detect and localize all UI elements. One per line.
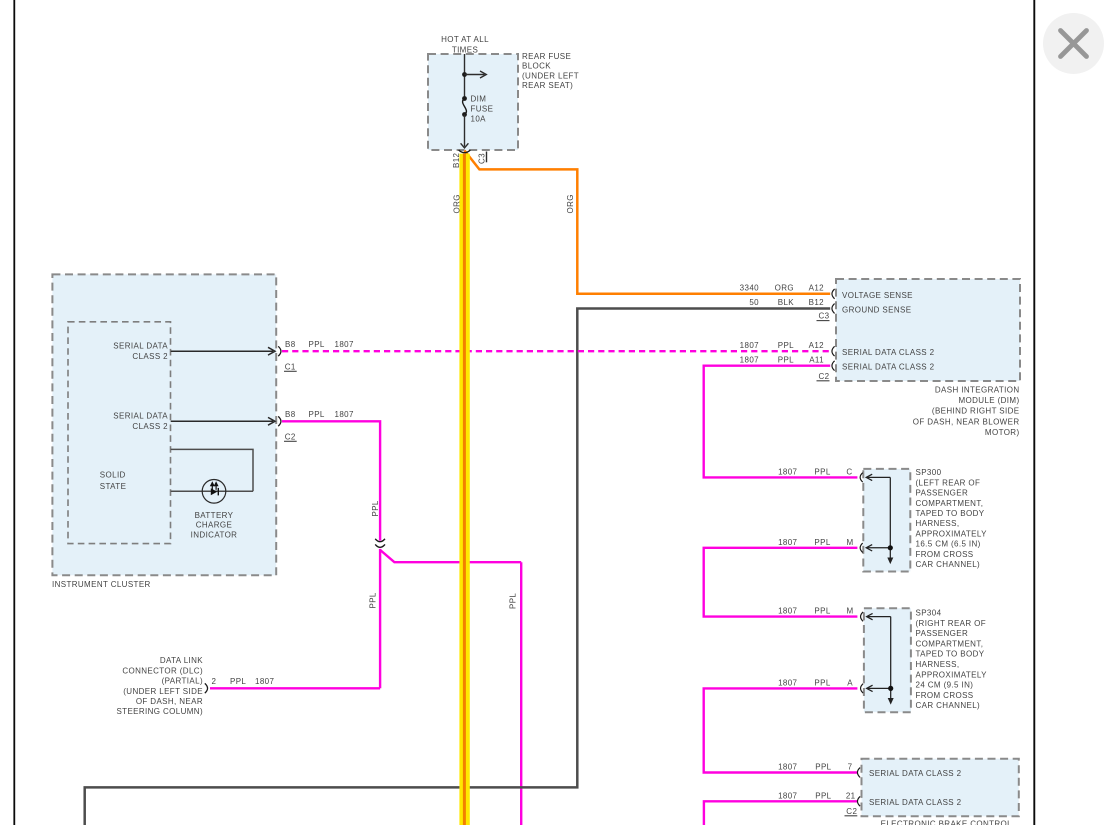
svg-text:PPL: PPL <box>815 763 831 772</box>
DIM module box <box>836 279 1020 381</box>
svg-text:3340: 3340 <box>740 283 759 292</box>
svg-text:B12: B12 <box>809 298 825 307</box>
SP300 splice box <box>863 469 910 572</box>
svg-text:SERIAL DATA: SERIAL DATA <box>113 411 168 420</box>
battery indicator loop wire <box>171 449 253 491</box>
svg-text:(UNDER LEFT SIDE: (UNDER LEFT SIDE <box>123 687 203 696</box>
wire PPL 1807 branch via inline connector to DIM side <box>380 550 521 825</box>
svg-text:1807: 1807 <box>778 763 797 772</box>
svg-text:(UNDER LEFT: (UNDER LEFT <box>522 71 579 80</box>
svg-text:C3: C3 <box>819 312 830 321</box>
svg-text:(LEFT REAR OF: (LEFT REAR OF <box>916 478 981 487</box>
svg-text:CONNECTOR (DLC): CONNECTOR (DLC) <box>122 666 203 675</box>
svg-text:SERIAL DATA CLASS 2: SERIAL DATA CLASS 2 <box>869 769 962 778</box>
SP300 junction dot <box>888 545 893 550</box>
svg-text:B8: B8 <box>285 410 296 419</box>
wire PPL 1807 cluster C1 to DIM A12 (dashed) <box>282 350 830 352</box>
svg-text:BLOCK: BLOCK <box>522 62 551 71</box>
svg-text:1807: 1807 <box>255 677 274 686</box>
svg-text:PPL: PPL <box>778 356 794 365</box>
svg-text:PPL: PPL <box>814 607 830 616</box>
svg-text:M: M <box>846 538 853 547</box>
svg-text:ORG: ORG <box>452 194 461 213</box>
svg-text:1807: 1807 <box>335 410 354 419</box>
svg-text:FROM CROSS: FROM CROSS <box>916 691 974 700</box>
svg-text:REAR SEAT): REAR SEAT) <box>522 81 573 90</box>
svg-text:VOLTAGE SENSE: VOLTAGE SENSE <box>842 291 913 300</box>
svg-text:PASSENGER: PASSENGER <box>916 489 969 498</box>
svg-text:SERIAL DATA: SERIAL DATA <box>113 341 168 350</box>
svg-text:REAR FUSE: REAR FUSE <box>522 52 571 61</box>
svg-text:DIM: DIM <box>471 94 487 103</box>
svg-text:A11: A11 <box>809 356 824 365</box>
svg-text:SOLID: SOLID <box>100 470 126 479</box>
svg-text:24 CM (9.5 IN): 24 CM (9.5 IN) <box>916 681 974 690</box>
svg-text:MODULE (DIM): MODULE (DIM) <box>958 396 1019 405</box>
svg-text:PPL: PPL <box>815 791 831 800</box>
svg-text:STATE: STATE <box>100 482 127 491</box>
fuse feed wire inside block <box>464 54 466 99</box>
svg-text:A12: A12 <box>809 341 825 350</box>
svg-text:INSTRUMENT CLUSTER: INSTRUMENT CLUSTER <box>52 580 151 589</box>
svg-text:INDICATOR: INDICATOR <box>191 530 238 539</box>
svg-text:SERIAL DATA CLASS 2: SERIAL DATA CLASS 2 <box>842 348 935 357</box>
svg-text:FROM CROSS: FROM CROSS <box>916 550 974 559</box>
svg-text:CLASS 2: CLASS 2 <box>132 422 168 431</box>
highlighted traced wire (yellow) <box>459 154 469 825</box>
svg-text:CLASS 2: CLASS 2 <box>132 352 168 361</box>
svg-text:21: 21 <box>846 791 856 800</box>
close button <box>1043 13 1104 74</box>
svg-text:7: 7 <box>848 763 853 772</box>
svg-text:PPL: PPL <box>509 593 518 609</box>
page frame left border <box>13 0 15 825</box>
svg-text:STEERING COLUMN): STEERING COLUMN) <box>116 707 203 716</box>
svg-text:1807: 1807 <box>740 356 759 365</box>
rear fuse block box <box>428 54 518 150</box>
svg-text:TIMES: TIMES <box>452 45 478 54</box>
svg-text:PASSENGER: PASSENGER <box>916 629 969 638</box>
page frame right border <box>1033 0 1035 825</box>
SP300 connector arcs <box>860 473 863 553</box>
fuse output wire with down arrow <box>461 115 469 148</box>
svg-text:ORG: ORG <box>566 194 575 213</box>
svg-text:PPL: PPL <box>371 500 380 516</box>
svg-text:B8: B8 <box>285 340 296 349</box>
svg-text:PPL: PPL <box>230 677 246 686</box>
wire PPL 1807 EBCM pin 21 heading off-page <box>704 801 858 825</box>
svg-text:GROUND SENSE: GROUND SENSE <box>842 305 911 314</box>
EBCM module box <box>862 759 1019 817</box>
svg-text:SERIAL DATA CLASS 2: SERIAL DATA CLASS 2 <box>869 798 962 807</box>
label REAR FUSE BLOCK (UNDER LEFT REAR SEAT) <box>522 52 579 90</box>
wire ORG 3340 fuse to DIM A12 <box>465 151 831 294</box>
svg-text:CHARGE: CHARGE <box>196 521 233 530</box>
LED diode triangle and cathode bar <box>211 488 217 495</box>
wire PPL 1807 cluster C2 to junction (solid magenta) <box>282 421 380 688</box>
traced wire orange core <box>463 154 466 825</box>
svg-text:(PARTIAL): (PARTIAL) <box>162 677 203 686</box>
svg-text:COMPARTMENT,: COMPARTMENT, <box>916 639 984 648</box>
svg-text:1807: 1807 <box>335 340 354 349</box>
inline connector arcs on PPL wire <box>375 150 470 547</box>
svg-text:MOTOR): MOTOR) <box>985 428 1020 437</box>
svg-text:C3: C3 <box>478 153 487 164</box>
connector C2 arc at cluster <box>278 416 281 426</box>
label HOT AT ALL TIMES <box>441 35 489 55</box>
svg-text:1807: 1807 <box>740 341 759 350</box>
text cursor artifact <box>486 152 487 163</box>
label SP304 location <box>916 609 988 711</box>
svg-text:SP304: SP304 <box>916 609 942 618</box>
svg-text:50: 50 <box>749 298 759 307</box>
connector arc at DLC <box>205 683 208 693</box>
svg-text:APPROXIMATELY: APPROXIMATELY <box>916 529 988 538</box>
svg-text:C2: C2 <box>846 807 857 816</box>
cluster C1 output arrow <box>171 347 275 355</box>
svg-text:FUSE: FUSE <box>471 104 494 113</box>
LED emission arrows <box>211 483 218 490</box>
svg-text:CAR CHANNEL): CAR CHANNEL) <box>916 701 981 710</box>
EBCM connector arcs <box>857 768 860 807</box>
cluster inner solid-state box <box>68 322 171 544</box>
svg-text:PPL: PPL <box>309 410 325 419</box>
connector C3 arc under fuse block <box>459 150 471 153</box>
svg-text:PPL: PPL <box>778 341 794 350</box>
SP304 connector arcs <box>861 612 864 693</box>
svg-text:DASH INTEGRATION: DASH INTEGRATION <box>935 385 1020 394</box>
svg-text:ELECTRONIC BRAKE CONTROL: ELECTRONIC BRAKE CONTROL <box>881 819 1013 825</box>
svg-text:C: C <box>846 468 852 477</box>
wire BLK 50 DIM B12 ground run <box>85 309 831 825</box>
label DIM FUSE 10A <box>471 94 494 123</box>
svg-text:ORG: ORG <box>775 283 794 292</box>
SP300 internal splice arrows <box>866 474 890 558</box>
label DATA LINK CONNECTOR (DLC) location <box>116 656 203 716</box>
svg-text:1807: 1807 <box>778 538 797 547</box>
junction node dot <box>462 72 467 77</box>
wire PPL 1807 DLC to junction <box>210 687 380 689</box>
svg-text:HARNESS,: HARNESS, <box>916 519 960 528</box>
SP304 internal splice arrows <box>867 613 891 699</box>
svg-text:COMPARTMENT,: COMPARTMENT, <box>916 499 984 508</box>
svg-text:OF DASH, NEAR BLOWER: OF DASH, NEAR BLOWER <box>913 417 1020 426</box>
svg-text:C1: C1 <box>285 362 296 371</box>
branch arrow to right <box>465 71 487 78</box>
svg-text:SP300: SP300 <box>916 468 942 477</box>
svg-text:DATA LINK: DATA LINK <box>160 656 203 665</box>
svg-text:PPL: PPL <box>369 592 378 608</box>
cluster C2 output arrow <box>171 417 275 425</box>
svg-text:(BEHIND RIGHT SIDE: (BEHIND RIGHT SIDE <box>932 407 1020 416</box>
svg-text:TAPED TO BODY: TAPED TO BODY <box>916 509 985 518</box>
SP304 junction dot <box>888 686 893 691</box>
fuse F_DIM 10A symbol <box>463 99 467 115</box>
svg-text:1807: 1807 <box>778 679 797 688</box>
instrument cluster outer box <box>52 274 276 575</box>
wire PPL 1807 SP304 pin A to EBCM pin 7 <box>704 688 858 772</box>
svg-text:TAPED TO BODY: TAPED TO BODY <box>916 650 985 659</box>
svg-text:1807: 1807 <box>778 468 797 477</box>
wire PPL 1807 DIM A11 to SP300 pin C <box>704 366 858 478</box>
svg-text:C2: C2 <box>285 432 296 441</box>
svg-text:HARNESS,: HARNESS, <box>916 660 960 669</box>
battery charge indicator LED circle <box>202 480 226 504</box>
svg-text:C2: C2 <box>819 372 830 381</box>
svg-text:HOT AT ALL: HOT AT ALL <box>441 35 489 44</box>
wire PPL 1807 SP300 pin M to SP304 pin M <box>704 548 858 617</box>
svg-text:(RIGHT REAR OF: (RIGHT REAR OF <box>916 619 987 628</box>
connector C1 arc at cluster <box>278 346 281 356</box>
svg-text:OF DASH, NEAR: OF DASH, NEAR <box>136 697 203 706</box>
svg-text:APPROXIMATELY: APPROXIMATELY <box>916 670 988 679</box>
svg-text:1807: 1807 <box>778 791 797 800</box>
DIM connector arcs A12/B12/A12/A11 <box>832 289 835 371</box>
svg-text:M: M <box>846 607 853 616</box>
svg-text:PPL: PPL <box>814 468 830 477</box>
svg-text:PPL: PPL <box>814 679 830 688</box>
label SP300 location <box>916 468 988 569</box>
SP304 splice box <box>864 608 911 712</box>
svg-text:CAR CHANNEL): CAR CHANNEL) <box>916 560 981 569</box>
svg-text:1807: 1807 <box>778 607 797 616</box>
svg-text:10A: 10A <box>471 114 487 123</box>
svg-text:BATTERY: BATTERY <box>195 511 234 520</box>
svg-text:PPL: PPL <box>814 538 830 547</box>
svg-text:A12: A12 <box>809 283 825 292</box>
svg-text:SERIAL DATA CLASS 2: SERIAL DATA CLASS 2 <box>842 363 935 372</box>
svg-text:PPL: PPL <box>309 340 325 349</box>
svg-text:2: 2 <box>212 677 217 686</box>
svg-text:A: A <box>847 679 853 688</box>
svg-text:BLK: BLK <box>778 298 795 307</box>
svg-text:16.5 CM (6.5 IN): 16.5 CM (6.5 IN) <box>916 540 981 549</box>
label DASH INTEGRATION MODULE (DIM) location <box>913 385 1020 437</box>
